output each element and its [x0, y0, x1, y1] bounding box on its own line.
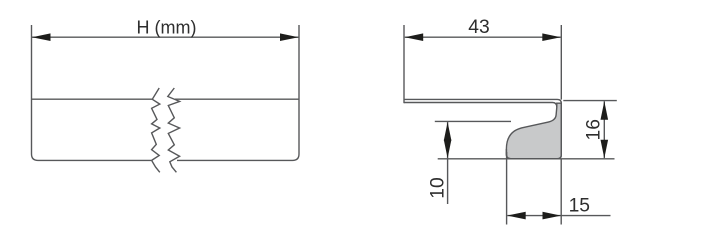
svg-text:43: 43: [468, 17, 489, 38]
dimension H: left arrowhead: [32, 33, 51, 41]
dimension 15: right arrowhead: [543, 212, 562, 220]
dimension 43: right arrowhead: [542, 33, 561, 41]
dimension 15: left arrowhead: [507, 212, 526, 220]
dimension 10: top extension line: [435, 120, 511, 122]
dimension 43: dimension line: [405, 36, 561, 38]
dimension 15: left extension line: [506, 152, 508, 225]
dimension 10: top arrowhead: [444, 122, 452, 141]
svg-text:H (mm): H (mm): [137, 18, 197, 38]
dimension 15: dimension line extended right: [507, 215, 610, 217]
dimension 15: right extension line: [560, 159, 562, 225]
left view: profile bar outline left side with rounded bottom corner: [32, 25, 152, 160]
svg-text:16: 16: [583, 119, 604, 140]
dimension 10: bottom arrowhead: [444, 140, 452, 159]
dimension 16: top arrowhead: [601, 101, 609, 120]
profile cross-section: gray foot region: [506, 103, 561, 159]
profile cross-section: flange bottom line and channel rounded end: [404, 103, 557, 108]
dimension 16: bottom arrowhead: [601, 140, 609, 159]
left view: right side with rounded bottom corner: [177, 25, 299, 160]
dimension 16: dimension line: [603, 101, 605, 158]
profile cross-section: outer outline (flange top, right edge, bottom): [404, 99, 561, 158]
right view: 43 right extension line: [560, 25, 562, 100]
dimension H: dimension line: [32, 36, 299, 38]
left view: top edge right segment: [175, 98, 299, 100]
break line 2: [168, 88, 180, 172]
left view: top edge left segment: [32, 98, 153, 100]
dimension 16: top extension line: [563, 100, 617, 102]
svg-text:15: 15: [569, 196, 590, 217]
dimension H: right arrowhead: [280, 33, 299, 41]
dimension 43: left arrowhead: [405, 33, 424, 41]
svg-text:10: 10: [428, 177, 449, 198]
break line 1: [152, 88, 160, 172]
dimension 10: dimension line extended below: [447, 122, 449, 204]
bottom edge and its extension lines: [438, 158, 615, 160]
right view: 43 left extension line / flange left end: [403, 25, 405, 103]
